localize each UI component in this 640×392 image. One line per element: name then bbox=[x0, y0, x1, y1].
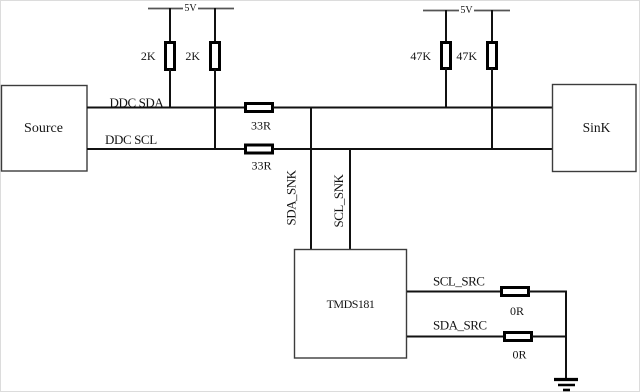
svg-text:Source: Source bbox=[24, 121, 63, 136]
resistor R 47K #2 bbox=[488, 43, 497, 69]
resistor R 33R #2 bbox=[246, 145, 273, 153]
wire SCL_SRC: R7 to corner bbox=[529, 291, 567, 293]
wire SDA_SRC: TMDS181 to R8 bbox=[407, 336, 505, 338]
wire: R1 bottom to DDC_SDA bbox=[169, 69, 171, 108]
svg-text:2K: 2K bbox=[185, 49, 200, 63]
wire SDA_SNK vertical bbox=[310, 108, 312, 251]
block TMDS181 bbox=[295, 250, 407, 359]
wire DDC_SDA: R3 to SinK bbox=[273, 107, 552, 109]
svg-text:33R: 33R bbox=[251, 159, 271, 173]
svg-text:33R: 33R bbox=[251, 119, 271, 133]
wire DDC_SDA: Source to R3 bbox=[87, 107, 246, 109]
svg-text:5V: 5V bbox=[460, 5, 473, 16]
svg-text:SDA_SNK: SDA_SNK bbox=[284, 169, 299, 225]
wire: R5 bottom to DDC_SDA bbox=[445, 68, 447, 108]
wire: R2 bottom to DDC_SCL bbox=[214, 69, 216, 150]
svg-text:TMDS181: TMDS181 bbox=[327, 297, 375, 311]
svg-text:47K: 47K bbox=[456, 49, 477, 63]
wire SCL_SNK vertical bbox=[349, 149, 351, 250]
resistor R 47K #1 bbox=[442, 43, 451, 69]
resistor R 0R #1 bbox=[502, 288, 529, 296]
power rail 5V (right) bbox=[423, 10, 510, 12]
wire: right rail to R5 top bbox=[445, 10, 447, 42]
svg-text:47K: 47K bbox=[410, 49, 431, 63]
resistor R 0R #2 bbox=[505, 333, 532, 341]
svg-text:2K: 2K bbox=[141, 49, 156, 63]
resistor R 2K #1 bbox=[166, 43, 175, 70]
svg-text:SDA_SRC: SDA_SRC bbox=[433, 318, 487, 333]
svg-text:DDC SDA: DDC SDA bbox=[110, 95, 165, 110]
svg-text:SCL_SRC: SCL_SRC bbox=[433, 274, 484, 289]
svg-text:SinK: SinK bbox=[583, 120, 611, 135]
power rail 5V (left) bbox=[148, 8, 234, 10]
block SinK bbox=[553, 85, 637, 172]
label 5V (left) bbox=[183, 1, 198, 14]
wire SDA_SRC: R8 to ground vertical bbox=[532, 336, 567, 338]
svg-text:0R: 0R bbox=[510, 304, 524, 318]
wire DDC_SCL: R4 to SinK bbox=[273, 148, 552, 150]
ground bbox=[554, 380, 578, 391]
wire: left rail to R1 top bbox=[169, 8, 171, 42]
wire: right rail to R6 top bbox=[491, 10, 493, 42]
resistor R 33R #1 bbox=[246, 104, 273, 112]
svg-text:SCL_SNK: SCL_SNK bbox=[331, 174, 346, 228]
label 5V (right) bbox=[459, 3, 474, 16]
wire DDC_SCL: Source to R4 bbox=[87, 148, 246, 150]
resistor R 2K #2 bbox=[211, 43, 220, 70]
block Source bbox=[2, 86, 88, 172]
wire: ground vertical bbox=[565, 292, 567, 379]
svg-text:0R: 0R bbox=[512, 348, 526, 362]
svg-text:DDC SCL: DDC SCL bbox=[105, 132, 157, 147]
svg-text:5V: 5V bbox=[184, 3, 197, 14]
wire SCL_SRC: TMDS181 to R7 bbox=[407, 291, 502, 293]
wire: left rail to R2 top bbox=[214, 8, 216, 42]
wire: R6 bottom to DDC_SCL bbox=[491, 68, 493, 150]
